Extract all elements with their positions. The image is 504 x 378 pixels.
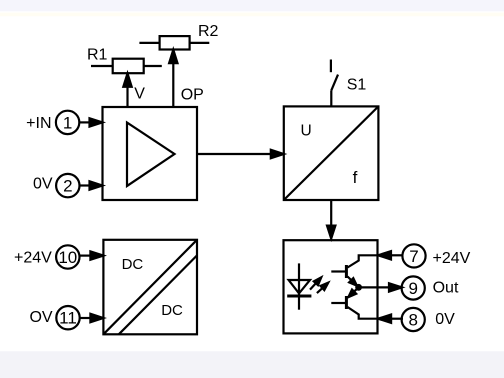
svg-text:11: 11 xyxy=(59,309,77,328)
terminal 7: +24V xyxy=(402,244,470,267)
resistor R1 xyxy=(87,46,162,73)
optocoupler block xyxy=(284,240,378,333)
svg-text:8: 8 xyxy=(408,311,417,330)
svg-text:f: f xyxy=(353,168,358,187)
svg-text:V: V xyxy=(134,86,145,103)
terminal 10: +24V xyxy=(14,245,80,268)
svg-text:0V: 0V xyxy=(33,176,53,193)
svg-text:10: 10 xyxy=(58,248,77,267)
light arrow 2 xyxy=(317,283,328,294)
svg-text:S1: S1 xyxy=(347,77,367,94)
svg-text:R1: R1 xyxy=(87,46,108,63)
terminal 9: Out xyxy=(402,276,459,299)
svg-text:U: U xyxy=(301,122,312,139)
wire: terminal 11 to DC/DC converter xyxy=(80,314,104,322)
op-amp U1: amplifier block xyxy=(103,107,198,200)
DC/DC converter block xyxy=(103,240,197,334)
wire V: arrow from amplifier top to R1 xyxy=(123,73,145,107)
svg-text:7: 7 xyxy=(409,247,418,266)
svg-text:DC: DC xyxy=(122,256,144,273)
terminal 8: 0V xyxy=(402,308,455,331)
svg-text:Out: Out xyxy=(433,280,459,297)
svg-text:9: 9 xyxy=(408,279,417,298)
wire: terminal 10 to DC/DC converter xyxy=(80,251,104,259)
U/f converter block xyxy=(284,106,379,200)
wire OP: arrow from amplifier top to R2 xyxy=(169,50,204,107)
wire: terminal 7 to optocoupler (+24V in) xyxy=(378,251,403,259)
wire: terminal 1 to amplifier input xyxy=(79,118,102,126)
svg-text:DC: DC xyxy=(161,302,183,319)
svg-text:1: 1 xyxy=(63,113,72,132)
terminal 2: 0V xyxy=(33,174,79,197)
svg-text:+IN: +IN xyxy=(26,115,51,132)
wire: U/f converter to optocoupler xyxy=(327,200,335,239)
wire: amplifier output to U/f converter xyxy=(197,150,284,158)
terminal 1: +IN xyxy=(26,111,79,134)
wire: optocoupler output to terminal 9 xyxy=(361,283,402,291)
svg-text:+24V: +24V xyxy=(433,250,471,267)
phototransistor Q1 (NPN, top) xyxy=(331,255,377,287)
switch S1 xyxy=(331,60,366,107)
svg-text:OV: OV xyxy=(29,309,52,326)
wire: terminal 2 to amplifier input xyxy=(80,181,103,189)
node: output junction dot xyxy=(355,284,362,291)
resistor R2 xyxy=(139,23,218,50)
LED D1 inside optocoupler xyxy=(287,263,311,309)
svg-text:0V: 0V xyxy=(435,311,455,328)
svg-text:R2: R2 xyxy=(198,23,219,40)
terminal 11: OV xyxy=(29,306,79,329)
svg-text:+24V: +24V xyxy=(14,249,52,266)
svg-text:2: 2 xyxy=(63,177,72,196)
transistor Q2 (PNP, bottom) xyxy=(331,287,377,318)
svg-text:OP: OP xyxy=(181,87,204,104)
wire: terminal 8 to optocoupler (0V) xyxy=(378,315,403,323)
light arrow 1 xyxy=(310,277,321,289)
